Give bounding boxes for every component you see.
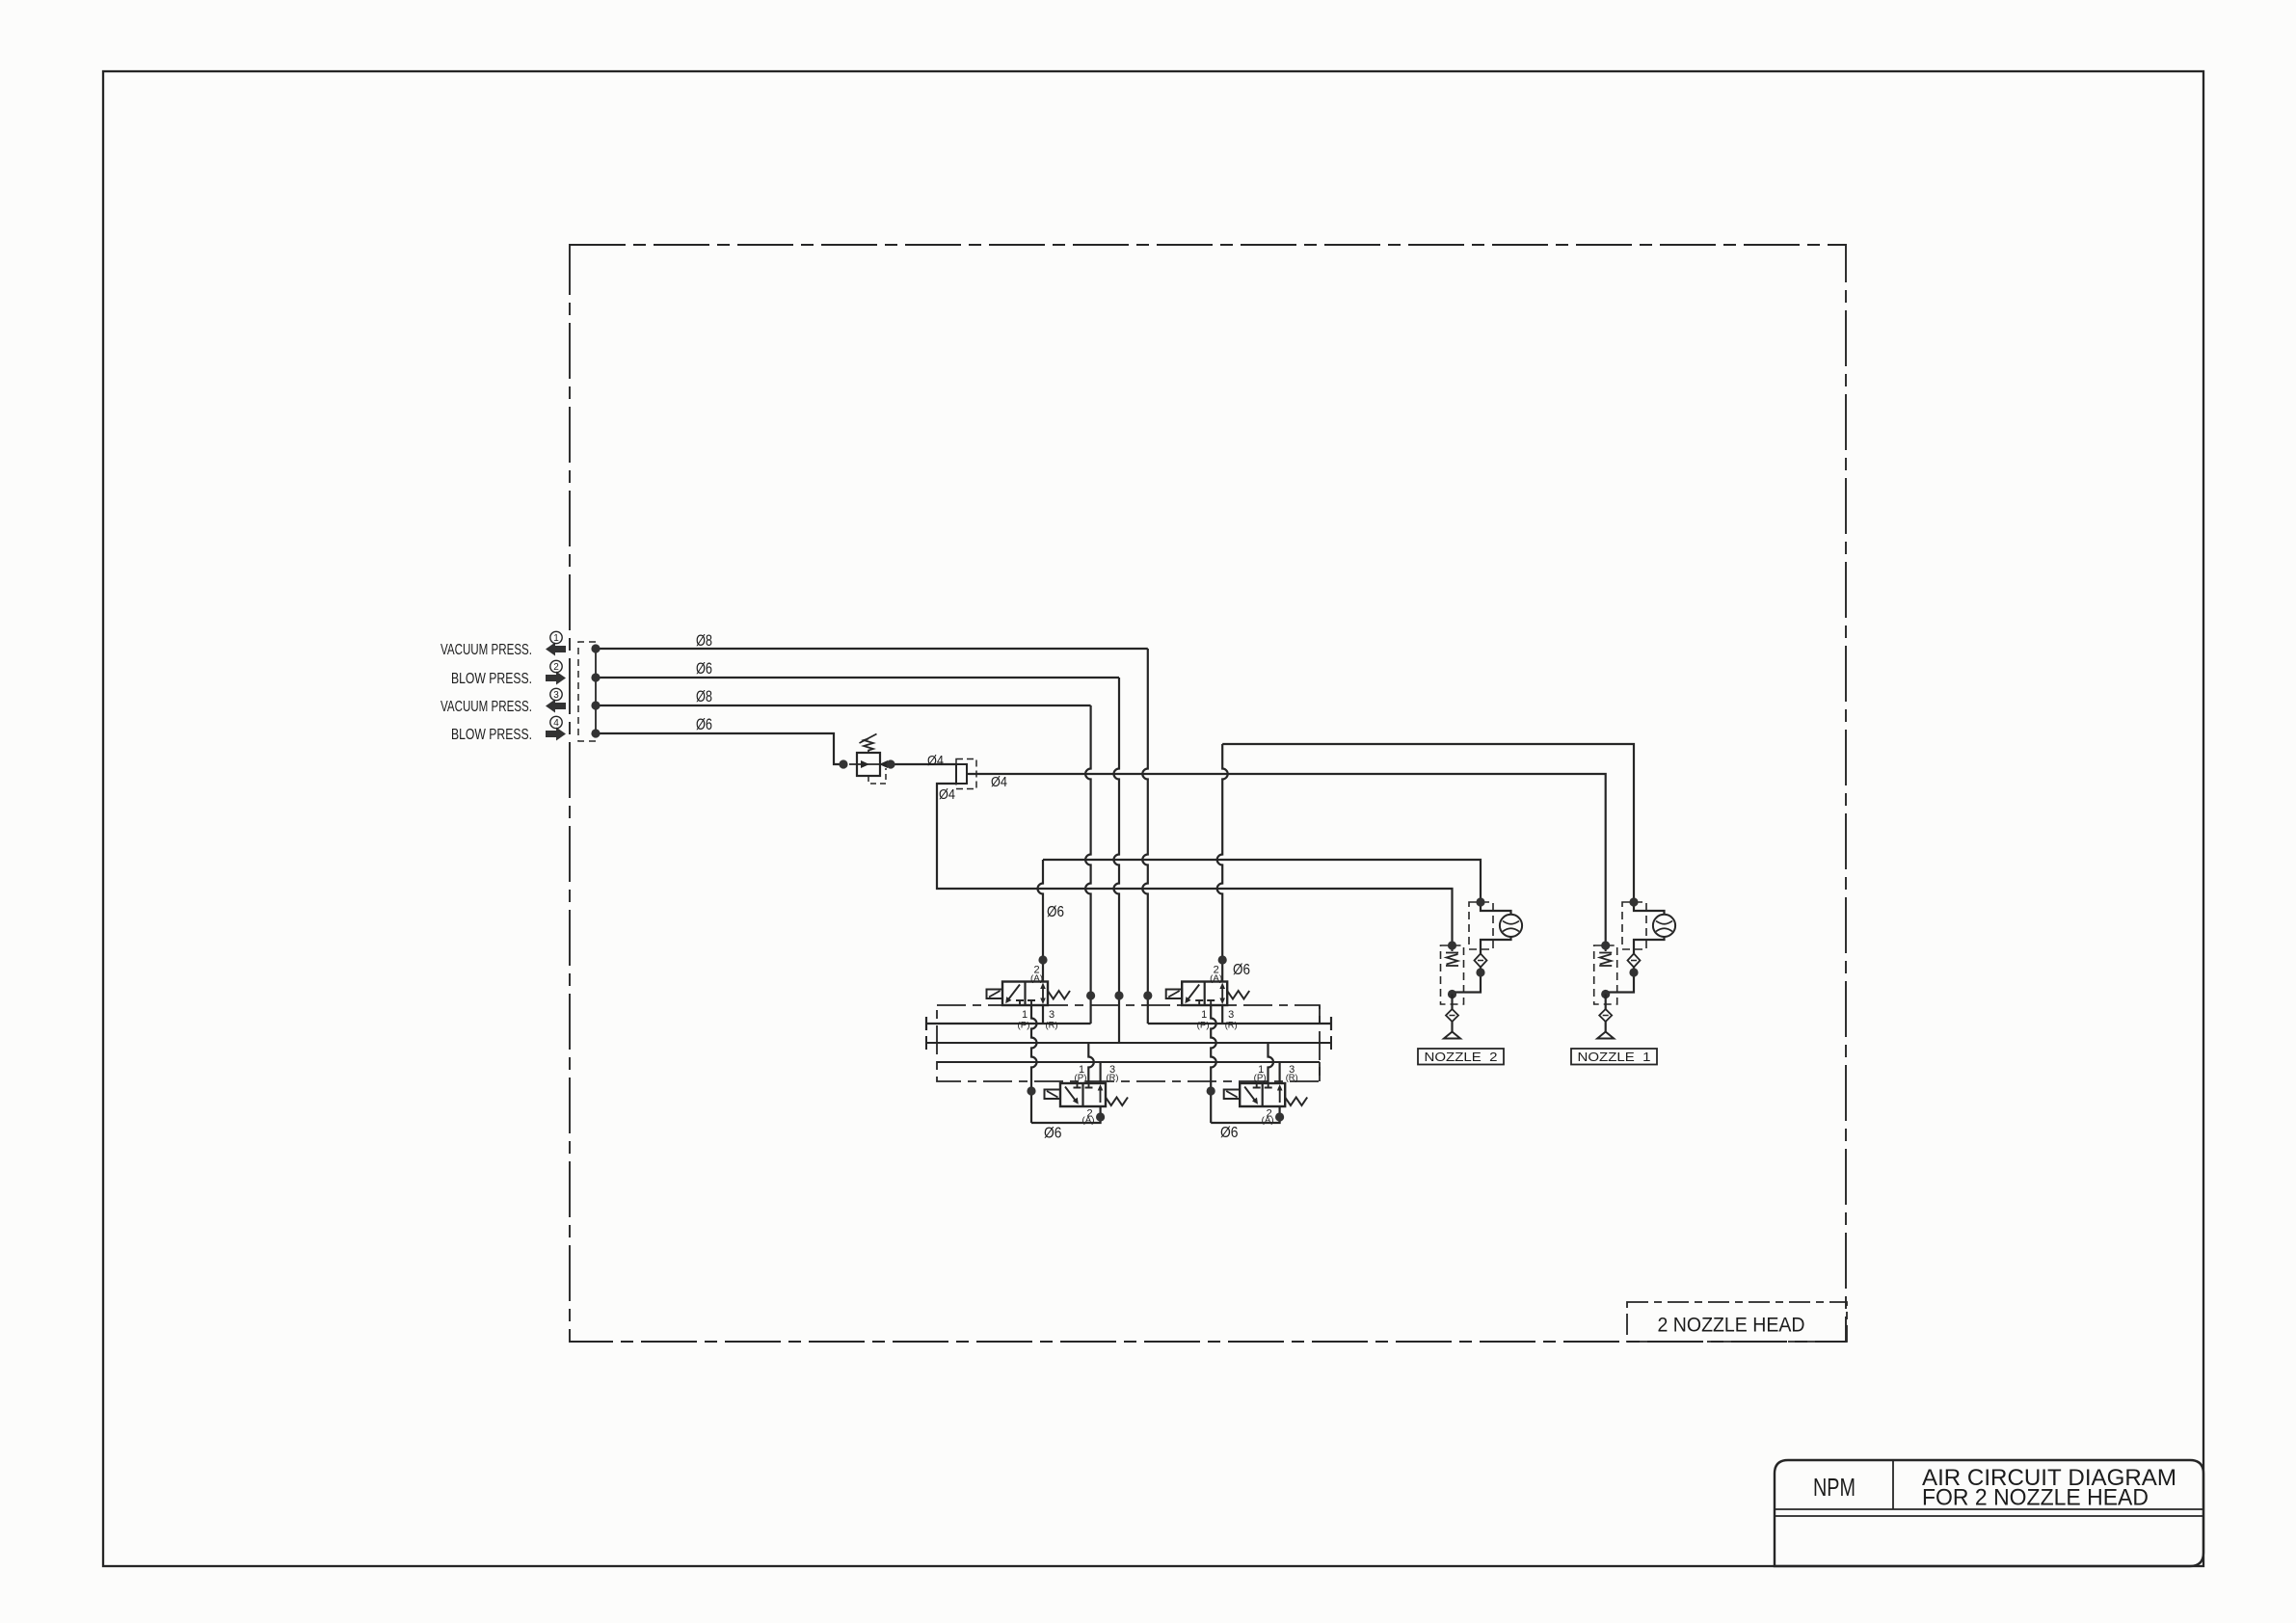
nozzle 1 check valve on vacuum line bbox=[1628, 954, 1641, 968]
svg-text:(A): (A) bbox=[1030, 973, 1043, 984]
node: bus tick left B bbox=[925, 1017, 927, 1030]
svg-text:(A): (A) bbox=[1082, 1115, 1095, 1126]
title block frame bbox=[1775, 1460, 2203, 1566]
nozzle 1 vacuum line down to common point bbox=[1606, 968, 1639, 993]
pressure regulator bbox=[849, 734, 888, 785]
nozzle 2 vacuum generator bbox=[1476, 897, 1522, 953]
svg-text:(R): (R) bbox=[1225, 1021, 1238, 1031]
port 1 circled number bbox=[550, 631, 562, 644]
label Ø4 down branch bbox=[939, 786, 955, 803]
nozzle 2 check valve on vacuum line bbox=[1475, 954, 1487, 968]
svg-text:BLOW PRESS.: BLOW PRESS. bbox=[451, 727, 532, 743]
label Ø6 on V1 output bbox=[1047, 904, 1064, 920]
manifold right edge solid stubs bbox=[1319, 1005, 1321, 1081]
manifold block dashed outline bbox=[937, 1005, 1320, 1081]
label Ø6 loop right bbox=[1220, 1125, 1239, 1141]
port 1 flow arrow bbox=[546, 643, 566, 656]
svg-text:(P): (P) bbox=[1075, 1073, 1087, 1083]
wire: V2 port A to nozzle 1 ejector bbox=[1217, 744, 1634, 982]
nozzle 1 vacuum ejector dashed body bbox=[1622, 902, 1646, 949]
wire: V3 port R to bus E bbox=[1099, 1062, 1101, 1083]
svg-text:FOR 2 NOZZLE HEAD: FOR 2 NOZZLE HEAD bbox=[1922, 1485, 2149, 1511]
svg-text:Ø4: Ø4 bbox=[939, 786, 955, 803]
svg-text:NOZZLE 1: NOZZLE 1 bbox=[1578, 1050, 1651, 1064]
port 1 VACUUM PRESS. label bbox=[441, 642, 532, 658]
svg-text:2: 2 bbox=[553, 662, 559, 673]
wire: V3 port P to bus C bbox=[1088, 1043, 1094, 1083]
node: bus tick right B bbox=[1330, 1017, 1332, 1030]
title block company name NPM bbox=[1813, 1473, 1855, 1502]
port 3 circled number bbox=[550, 688, 562, 701]
wire: regulator output to union bbox=[886, 759, 956, 768]
solenoid valve V2 top-right (3-port, vacuum select) bbox=[1166, 965, 1250, 1031]
solenoid valve V3 bottom-left (3-port, blow select) bbox=[1045, 1064, 1129, 1126]
svg-text:(R): (R) bbox=[1046, 1021, 1058, 1031]
solenoid valve V1 top-left (3-port, vacuum select) bbox=[987, 965, 1071, 1031]
wire: blow press 4, Ø6, to regulator bbox=[591, 729, 847, 768]
svg-text:1: 1 bbox=[553, 633, 559, 644]
label Ø8 line 3 bbox=[696, 687, 712, 705]
wire: vacuum press 3, Ø8, to left bus bbox=[591, 701, 1095, 1024]
wire: V4 port R to bus E bbox=[1278, 1062, 1280, 1083]
svg-text:(P): (P) bbox=[1254, 1073, 1267, 1083]
nozzle 2 filter and tip bbox=[1444, 995, 1460, 1039]
title block drawing title bbox=[1922, 1465, 2176, 1511]
wire: V1 port P cascade to V3 port A (Ø6 loop) bbox=[1027, 1005, 1105, 1123]
wire: V4 port P to bus C bbox=[1268, 1043, 1274, 1083]
svg-text:Ø4: Ø4 bbox=[991, 774, 1007, 790]
nozzle 1 label box bbox=[1571, 1049, 1657, 1065]
svg-text:Ø6: Ø6 bbox=[1233, 962, 1250, 978]
wire: V1 port A to nozzle 2 ejector bbox=[1038, 860, 1482, 982]
svg-text:NPM: NPM bbox=[1813, 1473, 1855, 1502]
label Ø4 regulator out bbox=[927, 753, 944, 769]
svg-text:1: 1 bbox=[1022, 1009, 1028, 1021]
port 4 flow arrow bbox=[546, 728, 566, 741]
wire: Ø4 to nozzle 1 blow unit bbox=[967, 774, 1606, 945]
nozzle 2 vacuum ejector dashed body bbox=[1469, 902, 1493, 949]
svg-text:3: 3 bbox=[1228, 1009, 1234, 1021]
svg-text:(P): (P) bbox=[1018, 1021, 1030, 1031]
svg-text:Ø4: Ø4 bbox=[927, 753, 944, 769]
svg-text:BLOW PRESS.: BLOW PRESS. bbox=[451, 671, 532, 687]
svg-text:Ø6: Ø6 bbox=[696, 715, 712, 733]
wire: Ø4 to nozzle 2 blow unit bbox=[937, 784, 1453, 945]
union fitting (Ø4 splitter) bbox=[956, 759, 976, 789]
svg-text:(A): (A) bbox=[1210, 973, 1222, 984]
svg-text:(R): (R) bbox=[1286, 1073, 1298, 1083]
svg-text:4: 4 bbox=[553, 718, 559, 729]
manifold bus E (exhaust) bbox=[937, 1061, 1320, 1063]
label Ø6 line 2 bbox=[696, 659, 712, 678]
svg-text:2 NOZZLE HEAD: 2 NOZZLE HEAD bbox=[1658, 1315, 1805, 1337]
nozzle 1 blow unit dashed body with spring check bbox=[1594, 941, 1617, 1004]
svg-text:3: 3 bbox=[553, 690, 559, 701]
svg-text:VACUUM PRESS.: VACUUM PRESS. bbox=[441, 642, 532, 658]
port 2 flow arrow bbox=[546, 672, 566, 685]
wire: vacuum press 1, Ø8, to right bus bbox=[591, 644, 1331, 1024]
svg-text:(R): (R) bbox=[1107, 1073, 1119, 1083]
solenoid valve V4 bottom-right (3-port, blow select) bbox=[1224, 1064, 1308, 1126]
port 4 circled number bbox=[550, 716, 562, 729]
svg-text:NOZZLE 2: NOZZLE 2 bbox=[1425, 1050, 1498, 1064]
port 3 flow arrow bbox=[546, 700, 566, 713]
wire: V1 port R to bus B-left bbox=[1042, 1005, 1044, 1024]
svg-text:Ø6: Ø6 bbox=[1220, 1125, 1239, 1141]
label Ø6 line 4 bbox=[696, 715, 712, 733]
svg-text:Ø8: Ø8 bbox=[696, 687, 712, 705]
wire: blow press 2, Ø6, to bus C bbox=[591, 673, 1123, 1043]
svg-text:Ø6: Ø6 bbox=[1047, 904, 1064, 920]
svg-text:(A): (A) bbox=[1262, 1115, 1274, 1126]
label Ø6 on V2 output bbox=[1233, 962, 1250, 978]
manifold bus C (blow supply) bbox=[926, 1036, 1331, 1050]
svg-text:3: 3 bbox=[1049, 1009, 1055, 1021]
port 3 VACUUM PRESS. label bbox=[441, 699, 532, 715]
port 2 BLOW PRESS. label bbox=[451, 671, 532, 687]
svg-text:1: 1 bbox=[1201, 1009, 1207, 1021]
port 2 circled number bbox=[550, 660, 562, 673]
nozzle 1 vacuum generator bbox=[1629, 897, 1675, 953]
nozzle 2 label box bbox=[1418, 1049, 1504, 1065]
svg-text:VACUUM PRESS.: VACUUM PRESS. bbox=[441, 699, 532, 715]
svg-text:Ø8: Ø8 bbox=[696, 631, 712, 650]
svg-text:Ø6: Ø6 bbox=[696, 659, 712, 678]
machine boundary dashed box (2 nozzle head unit) bbox=[570, 245, 1846, 1342]
svg-text:Ø6: Ø6 bbox=[1044, 1126, 1062, 1142]
label Ø8 line 1 bbox=[696, 631, 712, 650]
nozzle 1 filter and tip bbox=[1597, 995, 1614, 1039]
label Ø6 loop left bbox=[1044, 1126, 1062, 1142]
wire: V2 port R to bus B-right bbox=[1221, 1005, 1223, 1024]
wire: V2 port P cascade to V4 port A (Ø6 loop) bbox=[1207, 1005, 1285, 1123]
port 4 BLOW PRESS. label bbox=[451, 727, 532, 743]
bulkhead connector dashed box at boundary bbox=[578, 642, 596, 741]
label Ø4 right branch bbox=[991, 774, 1007, 790]
2 NOZZLE HEAD label box bbox=[1627, 1302, 1847, 1342]
nozzle 2 vacuum line down to common point bbox=[1453, 968, 1485, 993]
svg-text:(P): (P) bbox=[1197, 1021, 1210, 1031]
nozzle 2 blow unit dashed body with spring check bbox=[1441, 941, 1464, 1004]
bulkhead port rail bbox=[595, 649, 597, 733]
